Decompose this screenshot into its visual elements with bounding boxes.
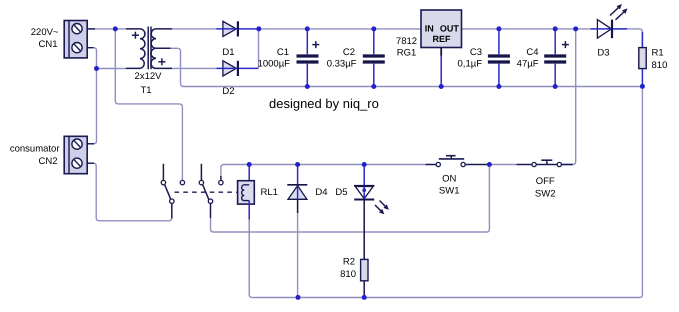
svg-text:C2: C2 bbox=[343, 47, 355, 58]
capacitor C4 bbox=[544, 29, 566, 87]
diode D4 bbox=[287, 165, 307, 214]
node C3 bottom bbox=[496, 84, 501, 89]
wire: secondary center tap down to ground rail bbox=[171, 48, 184, 86]
wire: CN2 bottom terminal right, down, along y=220.8 to contact pole 1 bbox=[88, 163, 172, 221]
C4 plus bbox=[562, 41, 569, 48]
svg-text:D3: D3 bbox=[597, 47, 609, 58]
svg-text:220V~: 220V~ bbox=[31, 27, 59, 38]
node D4 bottom bbox=[296, 295, 301, 300]
switch SW2 handle bbox=[546, 160, 548, 164]
wire: node A down, across y=104, down to contact NO1 bbox=[115, 29, 182, 181]
node C bbox=[256, 26, 261, 31]
diode D1 bbox=[217, 21, 259, 36]
switch SW2 leads and closed contact bbox=[517, 164, 533, 166]
switch SW1 handle bbox=[450, 156, 452, 159]
wire: node B down to CN2 top terminal bbox=[88, 69, 97, 144]
wire: top +V rail from node C to regulator bbox=[259, 28, 421, 30]
switch SW2 terminal circles bbox=[532, 162, 536, 166]
relay contact 1 NO terminal circle bbox=[180, 180, 184, 184]
relay contact 1 pole lead bbox=[171, 203, 173, 218]
terminal block CN1 bbox=[64, 21, 95, 58]
svg-text:D1: D1 bbox=[222, 47, 234, 58]
relay contact 2 blade bbox=[203, 185, 209, 200]
svg-text:C4: C4 bbox=[526, 47, 538, 58]
node C2 top bbox=[371, 26, 376, 31]
wire: node B to transformer primary bottom bbox=[97, 68, 127, 70]
svg-text:D4: D4 bbox=[315, 187, 327, 198]
svg-text:0.33µF: 0.33µF bbox=[327, 58, 357, 69]
node C4 bottom bbox=[553, 84, 558, 89]
svg-text:0,1µF: 0,1µF bbox=[458, 58, 483, 69]
svg-text:SW2: SW2 bbox=[535, 189, 556, 200]
relay contact 2 pole circle bbox=[208, 199, 212, 203]
svg-text:810: 810 bbox=[340, 269, 356, 280]
wire: RL1 bottom light portion bbox=[248, 219, 250, 294]
svg-text:C1: C1 bbox=[277, 47, 289, 58]
svg-text:D2: D2 bbox=[222, 86, 234, 97]
wire: ground rail y=86.5 bbox=[184, 86, 643, 88]
node G D5 top bbox=[362, 162, 367, 167]
node C1 top bbox=[305, 26, 310, 31]
svg-text:OUT: OUT bbox=[440, 24, 460, 34]
node C4 top bbox=[553, 26, 558, 31]
LED D3 bbox=[591, 5, 628, 39]
svg-text:SW1: SW1 bbox=[439, 186, 460, 197]
svg-text:C3: C3 bbox=[470, 47, 482, 58]
node R1 bottom bbox=[640, 84, 645, 89]
svg-text:R2: R2 bbox=[343, 256, 355, 267]
relay contact 2 pole lead bbox=[210, 203, 212, 218]
node H SW junction bbox=[487, 162, 492, 167]
transformer T1 bbox=[126, 27, 172, 70]
node F D4 top bbox=[295, 162, 300, 167]
svg-text:RG1: RG1 bbox=[397, 47, 417, 58]
svg-text:810: 810 bbox=[652, 60, 668, 71]
wire: node A to transformer primary top bbox=[115, 28, 126, 30]
wire: secondary top to D1 bbox=[172, 28, 218, 30]
wire: relay coil rail y=164.5 from contact NO2 to SW1 bbox=[221, 165, 426, 177]
svg-text:consumator: consumator bbox=[10, 143, 60, 154]
C1 plus bbox=[312, 41, 319, 48]
svg-text:ON: ON bbox=[442, 173, 456, 184]
switch SW1 terminal circles bbox=[436, 162, 440, 166]
wire: D4 branch light portion bbox=[297, 212, 299, 297]
wire: secondary bottom to D2 bbox=[172, 67, 218, 69]
switch SW1 leads bbox=[426, 164, 437, 166]
relay contact 2 NO terminal circle bbox=[219, 180, 223, 184]
svg-text:R1: R1 bbox=[652, 47, 664, 58]
svg-text:1000µF: 1000µF bbox=[258, 58, 291, 69]
switch SW1 contact bar bbox=[439, 158, 464, 160]
mechanical link dashed line bbox=[175, 191, 238, 193]
wire: regulator output rail to D3 bbox=[462, 28, 591, 30]
relay contact 1 NC terminal circle bbox=[161, 180, 165, 184]
svg-text:CN1: CN1 bbox=[38, 39, 57, 50]
relay contact 2 NO terminal stub bbox=[220, 176, 222, 180]
wire: CN1 top to node A bbox=[87, 28, 115, 30]
node C2 bottom bbox=[371, 84, 376, 89]
wire: D3 cathode to corner down to R1 bbox=[613, 29, 642, 48]
node REF bottom bbox=[439, 84, 444, 89]
svg-text:OFF: OFF bbox=[536, 176, 555, 187]
node E RL1 top bbox=[247, 162, 252, 167]
svg-text:RL1: RL1 bbox=[261, 187, 278, 198]
node D bbox=[573, 26, 578, 31]
LED D5 bbox=[354, 165, 388, 260]
relay contact 2 NC terminal circle bbox=[199, 180, 203, 184]
relay contact 1 NC stub bbox=[162, 164, 164, 181]
wire: SW1 right to node H to SW2 left bbox=[487, 164, 516, 166]
wire: node H down, left along y=232, up to contact pole 2 bbox=[211, 165, 490, 233]
transformer primary plus bbox=[132, 32, 139, 39]
wire: R1 bottom node down right side loop to bottom rail bbox=[252, 86, 642, 297]
svg-text:D5: D5 bbox=[335, 187, 347, 198]
node C3 top bbox=[496, 26, 501, 31]
capacitor C2 bbox=[363, 29, 385, 87]
transformer secondary plus bbox=[158, 58, 165, 65]
svg-text:47µF: 47µF bbox=[517, 58, 539, 69]
resistor R1 bbox=[639, 32, 646, 86]
relay contact 2 NC stub bbox=[200, 164, 202, 181]
relay RL1 bbox=[238, 165, 255, 220]
wire: node D down to SW2 right side bbox=[562, 29, 576, 165]
node C1 bottom bbox=[305, 84, 310, 89]
capacitor C1 bbox=[297, 29, 319, 87]
resistor R2 bbox=[361, 259, 368, 297]
relay contact 1 blade bbox=[165, 185, 171, 200]
svg-text:CN2: CN2 bbox=[38, 156, 57, 167]
node B bbox=[94, 66, 99, 71]
terminal block CN2 bbox=[64, 136, 94, 173]
svg-text:7812: 7812 bbox=[396, 36, 417, 47]
node R2 bottom bbox=[362, 295, 367, 300]
regulator RG1 7812 bbox=[421, 10, 462, 48]
wire: D2 output up to node C bbox=[258, 30, 260, 69]
wire: CN1 bottom terminal to node B bbox=[94, 48, 97, 69]
wire: REF pin down to ground rail bbox=[440, 48, 442, 57]
svg-text:T1: T1 bbox=[140, 85, 151, 96]
node A bbox=[113, 26, 118, 31]
svg-text:REF: REF bbox=[433, 34, 452, 44]
diode D2 bbox=[217, 61, 259, 76]
relay contact 1 pole circle bbox=[170, 199, 174, 203]
svg-text:2x12V: 2x12V bbox=[135, 71, 163, 82]
svg-text:IN: IN bbox=[425, 24, 434, 34]
wire: bottom rail left end up to RL1 lead bbox=[249, 219, 252, 298]
capacitor C3 bbox=[488, 29, 510, 87]
svg-text:designed by niq_ro: designed by niq_ro bbox=[269, 96, 379, 111]
